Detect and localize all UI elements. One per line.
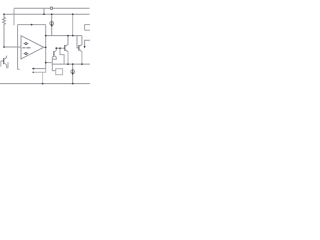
transistor Q2 emitter	[79, 49, 82, 52]
node Q1 collector	[67, 35, 69, 37]
op-amp U1 triangle	[21, 36, 44, 59]
transistor Q3 base drop	[0, 61, 2, 67]
current source I2 circle	[71, 70, 75, 74]
node box pin y62.6	[45, 62, 47, 64]
wire noninverting input	[4, 46, 21, 48]
IC box U1 right edge	[45, 25, 47, 69]
node base jog	[59, 47, 61, 49]
wire faint drop to ground	[42, 72, 44, 83]
node cs2 top	[72, 63, 74, 65]
transistor Q4 emitter	[52, 55, 56, 59]
node Q1 emitter bus	[67, 63, 69, 65]
node opamp out pin	[45, 35, 47, 37]
wire riser to rail2	[72, 14, 74, 35]
node plus input	[3, 46, 5, 48]
load box right edge	[85, 25, 91, 31]
op-amp inner symbols	[22, 43, 30, 55]
current source I1 circle	[50, 22, 54, 26]
wire from box pin y62.6	[46, 62, 53, 64]
current source I2 arrowhead	[72, 73, 74, 76]
node stub-rail2	[43, 13, 45, 15]
current source I1 inner arrow	[51, 21, 53, 25]
transistor Q2 collector	[79, 36, 82, 47]
node tip pin	[45, 46, 47, 48]
transistor Q1 collector	[65, 36, 68, 47]
transistor Q3 bar	[3, 58, 5, 64]
IC box U1 bottom edge with arrow	[34, 68, 46, 70]
wire output node horizontal	[46, 35, 82, 37]
terminal dot adjust	[32, 71, 34, 73]
plus input marker	[24, 43, 29, 45]
node cs1-rail2	[51, 13, 53, 15]
junction dots	[3, 13, 83, 84]
transistor Q2 bar	[78, 45, 80, 51]
wire V+ rail top	[14, 7, 90, 9]
wire Q4 collector to Q1 base	[56, 47, 65, 49]
node rail2 left	[3, 13, 5, 15]
wire Q4 emitter drop	[52, 57, 55, 71]
transistor Q1 bar	[64, 45, 66, 51]
node Q4 collector top	[55, 47, 57, 49]
IC box U1 left edge	[18, 25, 20, 70]
background	[0, 0, 90, 90]
wire stub joining rails	[43, 8, 45, 14]
arrowhead down right	[84, 46, 86, 48]
node riser-rail2	[72, 13, 74, 15]
ground rail bottom	[0, 83, 90, 85]
transistor Q2 base wire	[77, 36, 79, 48]
current source I1 line	[51, 14, 53, 35]
arrow on box bottom	[32, 68, 35, 70]
node riser bottom	[72, 35, 74, 37]
current source I1 arrowhead	[51, 25, 53, 28]
transistor Q3 collector	[4, 56, 7, 60]
node box top pin	[31, 24, 33, 26]
transistor Q3 base wire	[1, 60, 4, 62]
wire rail1 left drop	[13, 8, 15, 25]
transistor Q1 emitter	[65, 49, 68, 52]
minus input marker	[24, 53, 29, 55]
wire adjust node y72	[33, 69, 46, 73]
part label text	[22, 47, 30, 49]
node cs2 ground	[72, 83, 74, 85]
wire V rail second	[4, 13, 90, 15]
wire right y40	[85, 40, 90, 46]
IC box U1 top edge	[18, 24, 46, 26]
current source I2 inner arrow	[72, 69, 74, 73]
resistor R1 zigzag	[3, 14, 6, 47]
transistor Q4 bar	[53, 51, 55, 57]
wire jog from base node	[60, 48, 64, 64]
transistor Q4 collector	[54, 48, 56, 52]
current source I2 line	[72, 64, 74, 84]
wire emitter bus y64	[52, 63, 90, 65]
transistor Q3 emitter	[4, 62, 8, 68]
transistor Q4 base stub	[52, 56, 54, 58]
resistor R2 box	[56, 69, 63, 75]
node ground drop	[42, 83, 44, 85]
op-amp output wire	[44, 46, 46, 48]
terminal bubble on top rail	[50, 7, 52, 9]
node Q2 emitter bus	[81, 63, 83, 65]
